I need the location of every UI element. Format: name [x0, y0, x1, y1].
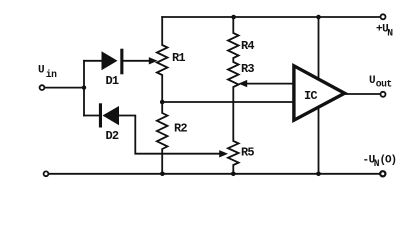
- svg-text:R2: R2: [174, 122, 187, 136]
- svg-text:R1: R1: [172, 51, 185, 65]
- svg-text:out: out: [376, 79, 392, 90]
- svg-text:R4: R4: [241, 39, 254, 53]
- svg-text:D2: D2: [106, 129, 119, 143]
- svg-text:D1: D1: [106, 74, 119, 88]
- svg-text:R3: R3: [241, 62, 254, 76]
- svg-text:(O): (O): [380, 155, 397, 167]
- svg-text:U: U: [38, 65, 44, 77]
- svg-text:IC: IC: [304, 89, 317, 103]
- svg-text:R5: R5: [241, 146, 254, 160]
- svg-text:U: U: [369, 75, 375, 87]
- svg-text:in: in: [46, 69, 57, 80]
- svg-text:N: N: [387, 28, 393, 39]
